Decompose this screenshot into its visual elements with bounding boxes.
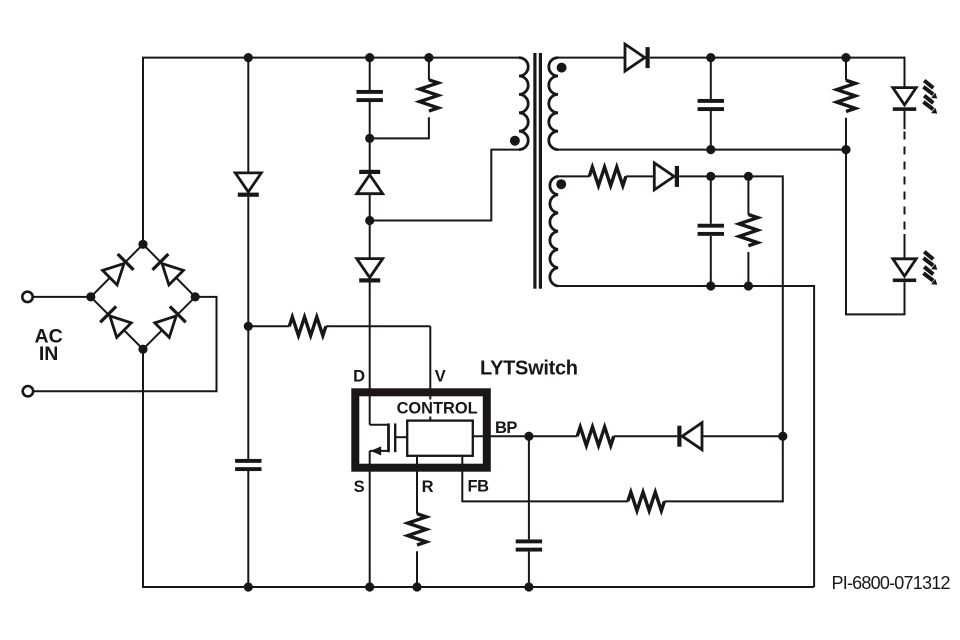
wire gate to CONTROL block bbox=[395, 436, 407, 438]
svg-text:FB: FB bbox=[468, 478, 490, 496]
transformer T1 secondary 2 winding bbox=[550, 176, 558, 286]
bridge diode BR1-a (left node to top node) bbox=[102, 253, 135, 286]
transformer T1 core bbox=[533, 53, 542, 289]
bridge diode BR1-b (right node to top node) bbox=[151, 253, 184, 286]
pin label D bbox=[353, 368, 365, 386]
node primary return junction bbox=[365, 216, 374, 225]
svg-text:PI-6800-071312: PI-6800-071312 bbox=[832, 573, 951, 593]
capacitor C2 (clamp) bbox=[357, 90, 383, 102]
pin label FB bbox=[468, 478, 490, 496]
transformer T1 secondary 1 polarity dot bbox=[557, 63, 567, 73]
label PI-6800-071312 bbox=[832, 573, 951, 593]
wire dashed (more LEDs implied) bbox=[904, 132, 906, 237]
wire BP capacitor to bottom rail bbox=[528, 552, 530, 587]
diode D2 (clamp, cathode up) bbox=[357, 170, 383, 194]
resistor R2 (clamp) bbox=[420, 80, 439, 111]
node top rail / clamp resistor bbox=[424, 53, 433, 62]
resistor R5 (feedback) bbox=[628, 492, 665, 511]
wire secondary 2 top to resistor R7 bbox=[558, 175, 589, 177]
wire diode D7 to feedback corner bbox=[679, 176, 783, 436]
node sec2 + / capacitor C5 bbox=[706, 172, 715, 181]
transistor Q1 gate bar bbox=[394, 423, 396, 452]
AC input terminal (lower) bbox=[23, 386, 33, 396]
bridge frame (diamond wires) bbox=[91, 244, 195, 349]
node D1 column / bias resistor tap bbox=[244, 322, 253, 331]
wire bridge bottom node to bottom rail bbox=[143, 349, 150, 587]
node BP bbox=[524, 432, 533, 441]
transformer T1 secondary 1 winding bbox=[549, 58, 558, 150]
diode D7 bbox=[654, 163, 679, 190]
wire primary return (to transformer primary bottom) bbox=[370, 150, 519, 221]
svg-text:V: V bbox=[435, 368, 446, 386]
transistor Q1 channel bar bbox=[387, 423, 390, 452]
node output + / bleeder resistor bbox=[841, 53, 850, 62]
wire CONTROL bottom to FB pin bbox=[462, 456, 628, 502]
pin label R bbox=[422, 478, 434, 496]
svg-text:D: D bbox=[353, 368, 365, 386]
node bridge left bbox=[86, 292, 95, 301]
CONTROL block U1 internal bbox=[407, 421, 473, 456]
capacitor C3 (BP) bbox=[516, 539, 542, 551]
capacitor C1 bbox=[235, 459, 261, 471]
wire capacitor C1 to bottom rail bbox=[247, 471, 249, 587]
wire resistor R1 to V pin corner bbox=[326, 325, 430, 327]
label AC IN bbox=[35, 325, 63, 365]
wire cap C5 top bbox=[710, 176, 712, 223]
wire resistor R7 to diode D7 bbox=[626, 175, 654, 177]
wire cap C4 bottom bbox=[710, 111, 712, 150]
wire top rail to clamp capacitor C2 bbox=[369, 58, 371, 91]
node sec2 - / resistor R8 bbox=[744, 281, 753, 290]
wire S pin (MOSFET source to bottom rail) bbox=[369, 451, 371, 587]
node output - / capacitor C4 bbox=[706, 145, 715, 154]
resistor R3 (R pin) bbox=[408, 514, 427, 545]
node sec2 + / resistor R8 bbox=[744, 172, 753, 181]
wire clamp node to clamp diode D2 bbox=[369, 138, 371, 170]
resistor R8 bottom wire bbox=[747, 252, 749, 286]
node bridge bottom bbox=[138, 345, 147, 354]
wire primary return node to blocking diode D3 bbox=[369, 221, 371, 259]
wire V pin vertical bbox=[429, 326, 431, 420]
LED1 bbox=[893, 88, 916, 111]
wire clamp diode D2 to primary return node bbox=[369, 194, 371, 221]
wire output + down to LED1 bbox=[904, 57, 906, 88]
svg-text:IN: IN bbox=[39, 343, 59, 365]
bridge diode BR1-c (bottom node to left node) bbox=[99, 305, 132, 338]
pin label BP bbox=[495, 419, 517, 437]
wire LED2 to LED return bbox=[846, 150, 905, 315]
wire upper AC terminal to bridge left node bbox=[33, 296, 91, 298]
wire CONTROL bottom to R pin bbox=[416, 456, 418, 514]
wire BP capacitor top bbox=[528, 436, 530, 539]
wire dashed section to LED2 bbox=[904, 234, 906, 259]
wire top rail (DC bus to transformer primary) bbox=[143, 58, 519, 245]
wire BP to resistor R4 bbox=[529, 435, 577, 437]
node R pin / bottom rail bbox=[412, 582, 421, 591]
transformer T1 primary winding bbox=[519, 58, 528, 150]
node output + / capacitor C4 bbox=[706, 53, 715, 62]
wire lower AC terminal to bridge right node bbox=[33, 297, 216, 391]
wire bias tap to resistor R1 bbox=[248, 325, 289, 327]
diode D5 (cathode left) bbox=[677, 423, 702, 450]
pin label S bbox=[354, 478, 365, 496]
LED1 light arrows bbox=[923, 81, 937, 114]
diode D6 (output rectifier) bbox=[625, 44, 650, 71]
wire top rail to diode D1 bbox=[247, 58, 249, 173]
capacitor C5 bbox=[698, 224, 724, 236]
wire resistor R5 to feedback vertical bbox=[664, 500, 782, 502]
wire LED1 to dashed section bbox=[904, 111, 906, 129]
svg-text:R: R bbox=[422, 478, 434, 496]
node bottom rail / C1 bbox=[244, 582, 253, 591]
CONTROL text knockout bbox=[394, 400, 481, 417]
AC input terminal (upper) bbox=[22, 292, 32, 302]
wire cap C5 bottom bbox=[710, 236, 712, 286]
transformer T1 primary polarity dot bbox=[510, 136, 520, 146]
node feedback junction bbox=[778, 432, 787, 441]
node output - / LED return bbox=[841, 145, 850, 154]
resistor R4 bbox=[577, 427, 614, 446]
pin label V bbox=[435, 368, 446, 386]
node BP cap / bottom rail bbox=[524, 582, 533, 591]
LED2 bbox=[893, 259, 916, 282]
wire clamp resistor R2 to clamp node bbox=[370, 117, 429, 138]
resistor R8 top wire bbox=[747, 176, 749, 214]
node bridge top bbox=[138, 240, 147, 249]
node bridge right bbox=[191, 292, 200, 301]
node clamp cap/resistor junction bbox=[365, 134, 374, 143]
resistor R7 bbox=[589, 167, 626, 186]
transformer T1 secondary 2 polarity dot bbox=[556, 179, 566, 189]
wire secondary 1 top to diode D6 bbox=[558, 57, 625, 59]
transistor Q1 (internal MOSFET) drain jog bbox=[370, 425, 389, 451]
wire secondary 2 bottom rail bbox=[558, 286, 814, 587]
label LYTSwitch bbox=[480, 357, 578, 379]
wire bleeder resistor top bbox=[845, 58, 847, 81]
resistor R1 bbox=[289, 317, 326, 336]
wire resistor R4 to diode D5 bbox=[614, 435, 678, 437]
wire top rail to clamp resistor R2 bbox=[428, 58, 430, 80]
node S pin / bottom rail bbox=[365, 582, 374, 591]
wire bleeder resistor bottom bbox=[845, 118, 847, 150]
wire secondary 1 bottom rail bbox=[558, 149, 846, 151]
node top rail / clamp capacitor bbox=[365, 53, 374, 62]
IC U1 LYTSwitch body bbox=[355, 392, 487, 467]
resistor R8 bbox=[739, 215, 758, 246]
wire feedback vertical to FB resistor line bbox=[782, 436, 784, 502]
wire diode D1 to capacitor C1 bbox=[247, 197, 249, 459]
resistor R6 (bleeder) bbox=[837, 80, 856, 111]
bridge diode BR1-d (bottom node to right node) bbox=[154, 305, 187, 338]
node sec2 - / capacitor C5 bbox=[706, 281, 715, 290]
svg-text:BP: BP bbox=[495, 419, 517, 437]
diode D1 bbox=[235, 173, 261, 197]
node top rail / D1 bbox=[244, 53, 253, 62]
label CONTROL bbox=[397, 399, 478, 417]
transistor Q1 source arrow bbox=[371, 446, 382, 455]
wire CONTROL to BP pin bbox=[473, 435, 529, 437]
wire clamp capacitor to clamp node bbox=[369, 102, 371, 139]
wire diode D6 to LED string corner bbox=[650, 57, 905, 59]
capacitor C4 (output) bbox=[698, 99, 724, 111]
svg-text:CONTROL: CONTROL bbox=[397, 399, 478, 417]
diode D3 (blocking) bbox=[357, 259, 383, 283]
wire diode D5 to feedback node bbox=[703, 435, 783, 437]
svg-text:LYTSwitch: LYTSwitch bbox=[480, 357, 578, 379]
wire bottom rail bbox=[143, 586, 814, 588]
wire diode D3 to drain pin D bbox=[369, 283, 371, 425]
svg-text:S: S bbox=[354, 478, 365, 496]
LED2 light arrows bbox=[923, 252, 937, 285]
wire top rail down to bridge top node bbox=[142, 58, 144, 245]
wire resistor R3 to bottom rail bbox=[416, 551, 418, 587]
wire cap C4 top bbox=[710, 58, 712, 99]
